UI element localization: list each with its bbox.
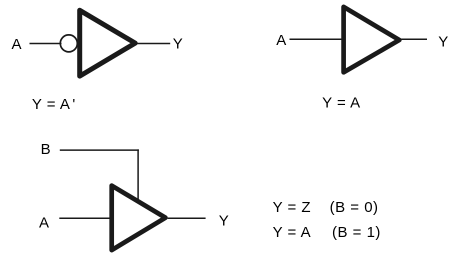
wire: B enable vertical segment: [137, 149, 139, 201]
wire: A to buffer: [290, 38, 343, 40]
svg-text:A: A: [276, 32, 287, 49]
svg-text:A: A: [39, 214, 50, 231]
wire: buffer output: [401, 38, 427, 40]
value label: Y = Z (B = 0): [273, 199, 379, 216]
wire: tri-state output: [168, 217, 206, 219]
svg-text:(B = 0): (B = 0): [330, 199, 379, 216]
svg-text:Y: Y: [438, 33, 449, 50]
wire: A to inverter bubble: [30, 43, 62, 45]
svg-text:Y = A: Y = A: [322, 95, 361, 112]
svg-text:(B = 1): (B = 1): [332, 224, 381, 241]
inverter input bubble: [60, 35, 77, 52]
tri-state buffer triangle U3: [112, 186, 166, 251]
svg-text:Y = A: Y = A: [273, 224, 312, 241]
inverter triangle U1: [80, 10, 136, 76]
svg-text:B: B: [41, 141, 52, 158]
svg-text:Y = A': Y = A': [32, 96, 76, 113]
value label: Y = A (B = 1): [273, 224, 381, 241]
svg-text:Y: Y: [219, 212, 230, 229]
wire: B enable horizontal segment: [60, 149, 139, 151]
wire: A to tri-state buffer: [59, 217, 110, 219]
buffer triangle U2: [344, 7, 400, 72]
svg-text:Y = Z: Y = Z: [273, 199, 312, 216]
wire: inverter output: [137, 43, 170, 45]
svg-text:Y: Y: [173, 36, 184, 53]
svg-text:A: A: [12, 36, 23, 53]
